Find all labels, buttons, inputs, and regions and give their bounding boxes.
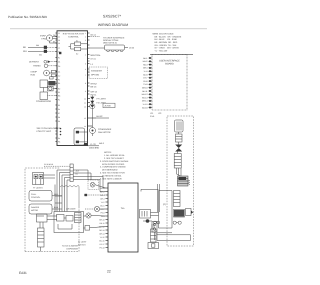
svg-text:DAMPER: DAMPER xyxy=(31,206,40,209)
svg-text:JC703: JC703 xyxy=(104,105,111,108)
svg-text:PB: PB xyxy=(58,140,61,143)
dashed option box xyxy=(89,67,108,79)
svg-text:GY-41: GY-41 xyxy=(91,58,96,61)
svg-text:TO USER INTERFACE: TO USER INTERFACE xyxy=(103,36,125,39)
svg-text:YL-5: YL-5 xyxy=(101,201,105,204)
svg-text:TN-9: TN-9 xyxy=(143,83,147,86)
footer sheet code xyxy=(19,271,27,275)
U2 pin wire labels xyxy=(142,57,148,110)
board right pin stubs xyxy=(88,33,97,126)
svg-text:P6: P6 xyxy=(58,108,60,111)
svg-text:FF LIGHT: FF LIGHT xyxy=(97,97,107,100)
indicator LED D1 xyxy=(90,96,106,101)
harness note text xyxy=(103,36,125,44)
svg-text:GY-7: GY-7 xyxy=(100,208,104,211)
svg-text:THERM: THERM xyxy=(33,65,41,68)
header publication number xyxy=(8,15,47,19)
board left pin numbers xyxy=(58,32,61,135)
connector bar CN2 xyxy=(151,224,157,242)
wire stub rows mid right xyxy=(88,58,96,61)
freezer lamp in dashed box xyxy=(88,180,106,190)
U2 below-box labels xyxy=(150,112,161,118)
valve coil xyxy=(176,132,183,142)
board internal node dot xyxy=(59,52,61,54)
svg-text:CONTROL: CONTROL xyxy=(68,35,79,38)
to ice water label xyxy=(62,245,79,251)
vertical connector bar in door xyxy=(174,191,181,207)
svg-text:BU - BLUE PK - PINK: BU - BLUE PK - PINK xyxy=(155,38,178,41)
wire label group 1 xyxy=(91,83,98,89)
user interface board U2 xyxy=(150,54,193,110)
svg-text:GY-9: GY-9 xyxy=(150,115,154,118)
svg-text:Tco: Tco xyxy=(121,207,125,210)
defrost heater wire row xyxy=(29,60,57,63)
svg-text:R2: R2 xyxy=(58,88,60,91)
arrow connector xyxy=(186,209,194,216)
legend wire color code xyxy=(153,33,182,53)
svg-text:WH: WH xyxy=(36,44,40,47)
svg-text:J1: J1 xyxy=(58,32,60,35)
svg-text:WH-2: WH-2 xyxy=(143,60,148,63)
svg-text:WIRING DIAGRAM: WIRING DIAGRAM xyxy=(98,23,128,27)
svg-text:GY-7: GY-7 xyxy=(143,77,147,80)
dispenser control box xyxy=(108,183,138,252)
svg-text:6: 6 xyxy=(85,68,86,71)
svg-text:9: 9 xyxy=(85,90,86,93)
dispenser box pin labels xyxy=(99,187,105,250)
svg-text:BK: BK xyxy=(23,46,26,49)
svg-text:RD-3: RD-3 xyxy=(143,63,147,66)
main control board U1 xyxy=(57,31,88,146)
svg-text:RUN: RUN xyxy=(31,73,36,76)
air door label and wires xyxy=(55,185,76,212)
torn-edge boundary xyxy=(60,185,79,207)
svg-text:BU-52: BU-52 xyxy=(97,115,104,118)
wire label group 2 xyxy=(91,91,98,97)
defrost thermostat row xyxy=(33,64,57,68)
svg-text:P2: P2 xyxy=(58,78,60,81)
svg-text:C1: C1 xyxy=(58,71,60,74)
dispenser housing outline xyxy=(159,191,173,229)
svg-text:Publication No. 5995421509: Publication No. 5995421509 xyxy=(8,15,47,19)
wire label aux xyxy=(92,108,109,126)
svg-text:J4: J4 xyxy=(58,42,60,45)
svg-text:L1: L1 xyxy=(58,46,60,49)
fan-out harness wires xyxy=(44,163,70,212)
svg-text:14: 14 xyxy=(84,125,86,128)
svg-text:WH: WH xyxy=(23,50,27,53)
freezer lamp L1 xyxy=(86,213,106,218)
ice water dispenser cluster xyxy=(54,212,84,233)
svg-text:WIRE COLOR CODE: WIRE COLOR CODE xyxy=(153,33,175,36)
svg-text:JC1: JC1 xyxy=(150,112,153,115)
ice chute connector striped xyxy=(178,176,189,186)
svg-text:RD-13: RD-13 xyxy=(142,96,147,99)
svg-text:FAN: FAN xyxy=(42,37,47,40)
svg-text:11: 11 xyxy=(84,101,86,104)
svg-text:SXS26C7*: SXS26C7* xyxy=(103,15,122,19)
svg-text:BOARD: BOARD xyxy=(165,63,174,66)
svg-text:PK-8: PK-8 xyxy=(101,211,105,214)
svg-text:YL - YELLOW: YL - YELLOW xyxy=(155,49,168,52)
svg-text:P1: P1 xyxy=(58,56,60,59)
svg-text:BK-11: BK-11 xyxy=(100,222,105,225)
header title WIRING DIAGRAM xyxy=(98,23,128,27)
dispenser box left pins xyxy=(106,188,109,248)
svg-text:DISPENSER: DISPENSER xyxy=(66,248,78,251)
svg-text:GY - GRAY WH - WHITE: GY - GRAY WH - WHITE xyxy=(155,47,180,50)
svg-text:WH-2: WH-2 xyxy=(100,190,105,193)
svg-text:1. ALL WIRING 18 GA.: 1. ALL WIRING 18 GA. xyxy=(104,154,125,157)
U2 left pins with terminals xyxy=(149,57,153,108)
svg-text:PK-18: PK-18 xyxy=(100,246,105,249)
evaporator fan motor M1 xyxy=(40,35,52,42)
svg-text:BK-11: BK-11 xyxy=(142,90,147,93)
svg-text:EVAP: EVAP xyxy=(40,35,46,38)
svg-text:EA31: EA31 xyxy=(19,271,27,275)
svg-text:RD-13: RD-13 xyxy=(99,229,104,232)
svg-text:BU-6: BU-6 xyxy=(100,204,104,207)
svg-text:BR-10: BR-10 xyxy=(99,218,104,221)
svg-text:WH-12: WH-12 xyxy=(91,91,98,94)
svg-text:4: 4 xyxy=(85,53,86,56)
svg-text:R3: R3 xyxy=(58,95,60,98)
svg-text:FF LIGHTS: FF LIGHTS xyxy=(33,186,43,189)
svg-text:REFRIGERATOR: REFRIGERATOR xyxy=(63,32,84,35)
notes list xyxy=(100,151,129,180)
defrost thermostat CT xyxy=(48,86,57,91)
svg-text:(SEE NOTE 2): (SEE NOTE 2) xyxy=(103,42,117,45)
svg-text:6. SEE NOTE 2 ABOVE: 6. SEE NOTE 2 ABOVE xyxy=(100,177,122,180)
indicator LED D2 xyxy=(90,101,106,105)
trunk wires bottom left to center xyxy=(37,216,87,228)
svg-text:J3: J3 xyxy=(58,39,60,42)
svg-text:FZ LIGHT: FZ LIGHT xyxy=(97,101,107,104)
mid lamp L0 xyxy=(85,206,106,211)
harness connector bar J2 xyxy=(70,164,79,182)
svg-text:13: 13 xyxy=(84,117,86,120)
svg-text:TN-9: TN-9 xyxy=(101,215,105,218)
svg-text:FZ LIGHT: FZ LIGHT xyxy=(78,241,87,244)
svg-text:4. COMPONENTS SHOWN: 4. COMPONENTS SHOWN xyxy=(100,166,126,169)
svg-text:BU-6: BU-6 xyxy=(143,73,147,76)
svg-text:JC2: JC2 xyxy=(158,112,161,115)
svg-text:MOTOR: MOTOR xyxy=(31,209,39,212)
svg-text:BK-1: BK-1 xyxy=(143,57,147,60)
door switch pair left of housing xyxy=(152,222,157,241)
svg-text:CONDENSER: CONDENSER xyxy=(98,128,112,131)
board inner left pin label column xyxy=(58,56,61,143)
svg-text:5. SEE TECH SHEET FOR: 5. SEE TECH SHEET FOR xyxy=(100,172,125,175)
door switch S1 xyxy=(85,226,106,231)
svg-text:PK-8: PK-8 xyxy=(143,80,147,83)
lamp assembly side wires xyxy=(44,175,56,178)
wires down-right in freezer door xyxy=(177,168,191,185)
wire label L1 xyxy=(91,63,94,66)
housing bottom wires xyxy=(157,233,191,241)
svg-text:RD-3: RD-3 xyxy=(100,194,104,197)
svg-text:MAIN BRD: MAIN BRD xyxy=(89,147,100,150)
svg-text:DEFROST: DEFROST xyxy=(29,61,40,64)
wire label bottom xyxy=(88,142,104,146)
svg-text:BK-14: BK-14 xyxy=(91,34,96,37)
damper harness box xyxy=(37,214,58,228)
svg-text:R1: R1 xyxy=(58,82,60,85)
board inner right pin label column xyxy=(84,32,86,128)
svg-text:P7: P7 xyxy=(58,112,60,115)
svg-text:FOR PTC INFO: FOR PTC INFO xyxy=(37,130,52,133)
svg-text:SCHEMATIC DETAIL: SCHEMATIC DETAIL xyxy=(102,174,122,177)
svg-text:BR - BROWN RD - RED: BR - BROWN RD - RED xyxy=(155,41,178,44)
svg-text:L1: L1 xyxy=(91,63,94,66)
svg-text:RD-11: RD-11 xyxy=(91,94,98,97)
svg-text:BR-10: BR-10 xyxy=(142,87,147,90)
board bottom-right node xyxy=(84,143,100,150)
svg-text:DISPLAY CONN: DISPLAY CONN xyxy=(103,39,119,42)
svg-text:AIR DOOR: AIR DOOR xyxy=(66,207,76,210)
svg-text:GN: GN xyxy=(39,53,42,56)
heater terminals pair xyxy=(173,221,181,224)
overload relay box xyxy=(36,88,57,104)
svg-text:OR-62: OR-62 xyxy=(91,83,98,86)
svg-text:YL-33: YL-33 xyxy=(90,143,96,146)
svg-text:8: 8 xyxy=(85,82,86,85)
wire evap fan to board xyxy=(50,34,58,44)
svg-text:CHILL: CHILL xyxy=(31,193,36,196)
svg-text:OR-14: OR-14 xyxy=(99,232,104,235)
inline connector P1 xyxy=(90,45,135,52)
svg-text:BU-16: BU-16 xyxy=(142,106,147,109)
fresh food door dashed enclosure xyxy=(25,168,79,252)
svg-text:FAN MOTOR: FAN MOTOR xyxy=(98,131,111,134)
svg-text:COMPRESSOR: COMPRESSOR xyxy=(36,100,52,103)
svg-text:K1: K1 xyxy=(76,40,78,43)
svg-text:12: 12 xyxy=(84,105,86,108)
air damper control xyxy=(29,204,62,214)
auger motor bowtie xyxy=(175,142,182,152)
board internal relay K1 xyxy=(69,40,88,56)
svg-text:3. DOOR SWITCHES SHOWN: 3. DOOR SWITCHES SHOWN xyxy=(100,160,129,163)
run capacitor box xyxy=(40,80,57,88)
svg-text:P3: P3 xyxy=(58,91,60,94)
svg-text:WITH DOORS CLOSED: WITH DOORS CLOSED xyxy=(102,163,125,166)
footer page number xyxy=(107,270,111,274)
defrost limit wire xyxy=(84,194,106,196)
svg-text:3: 3 xyxy=(85,39,86,42)
svg-text:P9: P9 xyxy=(58,120,60,123)
wire big box to housing xyxy=(141,189,159,191)
svg-text:5: 5 xyxy=(85,62,86,65)
fresh food lamp assembly xyxy=(33,173,44,190)
board left pin stubs xyxy=(55,33,57,142)
freezer door dashed enclosure xyxy=(167,116,194,246)
chill control xyxy=(29,191,62,202)
svg-text:JC10: JC10 xyxy=(129,47,135,50)
svg-text:TO ICE & WATER: TO ICE & WATER xyxy=(62,245,79,248)
door module striped box xyxy=(174,210,185,218)
svg-text:(F): (F) xyxy=(163,203,166,206)
svg-text:2. SEE TECH SHEET: 2. SEE TECH SHEET xyxy=(104,157,125,160)
board internal relay K2 xyxy=(74,128,88,145)
svg-text:BK-13: BK-13 xyxy=(91,86,98,89)
lamp label rows xyxy=(78,241,87,247)
svg-text:D1: D1 xyxy=(58,61,60,64)
bottom connector box xyxy=(148,243,159,249)
svg-text:1: 1 xyxy=(85,32,86,35)
svg-text:P5: P5 xyxy=(58,104,60,107)
svg-text:YL-5: YL-5 xyxy=(144,70,148,73)
svg-text:DE-ENERGIZED: DE-ENERGIZED xyxy=(102,169,118,172)
note text lines left xyxy=(37,127,61,133)
svg-text:OR-2: OR-2 xyxy=(54,193,58,196)
line cord wire L1 xyxy=(23,44,57,49)
svg-text:OR-4: OR-4 xyxy=(143,67,148,70)
svg-text:10: 10 xyxy=(84,97,86,100)
svg-text:GY-8 WH-9: GY-8 WH-9 xyxy=(44,163,53,166)
svg-text:PA: PA xyxy=(58,137,61,140)
svg-text:NOTES:: NOTES: xyxy=(104,151,112,154)
svg-text:BU-3: BU-3 xyxy=(54,206,58,209)
svg-text:ICEMAKER: ICEMAKER xyxy=(91,70,102,73)
svg-text:YL-15: YL-15 xyxy=(100,236,105,239)
wire to display harness xyxy=(90,34,101,37)
svg-text:GN - GREEN TN - TAN: GN - GREEN TN - TAN xyxy=(155,44,177,47)
dispenser right cluster box xyxy=(140,210,160,224)
svg-text:NEUTRAL: NEUTRAL xyxy=(91,54,102,57)
condenser fan motor M3 xyxy=(90,126,112,136)
svg-text:CONTROL: CONTROL xyxy=(31,196,40,199)
svg-text:OR-4: OR-4 xyxy=(100,197,104,200)
svg-text:7: 7 xyxy=(85,74,86,77)
svg-text:P8: P8 xyxy=(58,116,60,119)
header model number xyxy=(103,15,122,19)
svg-text:WH-12: WH-12 xyxy=(142,93,148,96)
compressor motor M2 xyxy=(31,70,58,79)
svg-text:P4: P4 xyxy=(58,98,60,101)
wires dispenser to right cluster xyxy=(151,184,160,216)
svg-text:BK - BLACK OR - ORANGE: BK - BLACK OR - ORANGE xyxy=(155,35,182,38)
header rule xyxy=(10,28,207,30)
svg-text:22: 22 xyxy=(107,270,111,274)
svg-text:GY-17: GY-17 xyxy=(99,243,104,246)
line cord wire N xyxy=(23,50,57,57)
wire label NEUTRAL xyxy=(91,54,102,57)
svg-text:K2: K2 xyxy=(76,52,78,55)
svg-text:OPTION: OPTION xyxy=(91,74,99,77)
water valve connector xyxy=(175,120,184,132)
svg-text:OR-14: OR-14 xyxy=(142,100,148,103)
svg-text:WR-2: WR-2 xyxy=(99,142,104,145)
svg-text:D2: D2 xyxy=(58,65,60,68)
svg-text:BU-16: BU-16 xyxy=(99,239,104,242)
indicator LED D3 xyxy=(90,103,115,109)
svg-text:2: 2 xyxy=(85,35,86,38)
svg-text:YL-15: YL-15 xyxy=(142,103,147,106)
heater element striped xyxy=(174,152,181,169)
svg-text:C2: C2 xyxy=(58,74,60,77)
svg-text:COMP: COMP xyxy=(31,71,38,74)
harness bundle to door components xyxy=(73,170,105,192)
svg-text:J2: J2 xyxy=(58,36,60,39)
door connector strip xyxy=(38,228,45,252)
